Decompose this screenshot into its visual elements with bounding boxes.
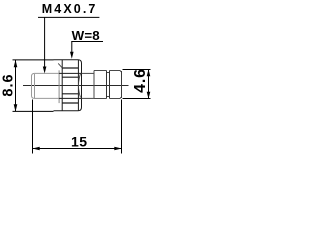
barb end face (120, 71, 122, 99)
barb (94, 71, 120, 99)
barb groove lines (107, 71, 110, 99)
dimension 4.6 (123, 70, 151, 99)
dimension 8.6 (13, 60, 54, 112)
svg-text:8.6: 8.6 (1, 73, 17, 96)
neck (82, 73, 95, 98)
svg-text:15: 15 (71, 133, 88, 149)
svg-text:M4X0.7: M4X0.7 (42, 2, 98, 16)
thread M4 body (32, 73, 60, 98)
centerline (23, 85, 129, 87)
hex chamfer slants (58, 63, 80, 97)
svg-text:W=8: W=8 (72, 28, 100, 43)
hex facet lines (62, 68, 78, 103)
svg-text:4.6: 4.6 (132, 68, 149, 93)
dimension 15 (33, 100, 122, 154)
thread runout / washer face line (58, 70, 60, 103)
hex nut (54, 60, 82, 111)
